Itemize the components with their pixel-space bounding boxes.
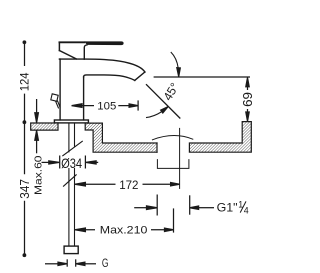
faucet handle left edge: [58, 42, 60, 50]
spout tip cut: [135, 72, 145, 80]
deck left slab outline: [31, 123, 58, 130]
svg-text:Ø34: Ø34: [61, 156, 82, 171]
drain body U bracket: [157, 160, 189, 169]
dim 172: [75, 182, 180, 186]
svg-text:Max.60: Max.60: [34, 155, 45, 195]
drain hole left edge line: [156, 143, 158, 152]
spout bottom edge: [84, 75, 135, 81]
outlet level reference line: [154, 76, 250, 78]
pull rod stem: [56, 101, 60, 108]
svg-text:347: 347: [18, 179, 32, 199]
svg-text:4: 4: [244, 205, 249, 215]
faucet body top: [59, 58, 84, 60]
svg-text:G1": G1": [217, 201, 238, 215]
pipe break mark 2: [64, 175, 77, 186]
supply hose foot: [64, 246, 78, 254]
45 deg lower arc arrow: [146, 112, 162, 118]
svg-text:172: 172: [119, 178, 139, 192]
svg-text:124: 124: [18, 72, 32, 91]
pipe break mark 1: [63, 141, 83, 155]
drain centerline: [179, 128, 181, 188]
dim Max.60 upper arrow: [35, 99, 39, 153]
deck hatch left slab: [31, 123, 58, 130]
dim O34: [42, 156, 99, 169]
faucet body left edge: [59, 59, 61, 120]
supply pipe lines: [69, 123, 75, 246]
dim dot top: [23, 40, 27, 44]
dim 124-347 vertical line: [24, 42, 26, 255]
dim 105: [72, 100, 139, 110]
dim G: [45, 259, 96, 266]
deck hatch mid with step: [85, 123, 157, 152]
dim Max.210: [75, 208, 174, 232]
faucet handle lever underside corner: [84, 45, 87, 59]
deck mid outline: [85, 123, 157, 152]
dim Max.60 lower arrow: [36, 140, 38, 153]
dim dot deck: [23, 120, 27, 124]
faucet handle lever bar: [84, 41, 123, 45]
svg-text:69: 69: [241, 92, 255, 107]
svg-text:Max.210: Max.210: [100, 224, 148, 236]
pull rod knob: [51, 94, 58, 102]
dim dot bottom: [23, 253, 27, 257]
spout top edge: [84, 59, 145, 72]
svg-text:105: 105: [97, 100, 116, 112]
faucet body right edge: [83, 77, 85, 120]
svg-text:G: G: [102, 258, 109, 270]
base flange: [54, 120, 88, 123]
deck right outline: [189, 122, 251, 153]
45 deg upper arc arrow: [146, 52, 180, 118]
dim G1 1/4: [134, 195, 214, 216]
drain dome arc: [152, 136, 192, 140]
faucet handle wedge: [59, 51, 76, 59]
faucet handle lever top: [59, 41, 84, 43]
45 deg line: [146, 84, 180, 118]
deck hatch right with upstand: [189, 122, 251, 153]
dim 69: [246, 78, 249, 122]
